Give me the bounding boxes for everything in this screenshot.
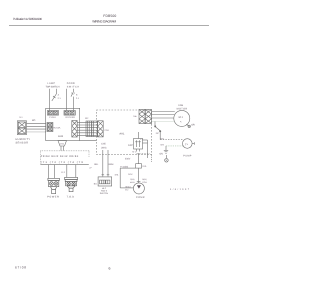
svg-text:FDB500: FDB500 — [103, 14, 116, 18]
svg-text:∿: ∿ — [180, 120, 182, 123]
fan motor M-1 caption — [177, 104, 188, 110]
svg-text:230V: 230V — [125, 158, 131, 161]
svg-text:SWITCH: SWITCH — [100, 192, 109, 195]
svg-text:T.O.D: T.O.D — [67, 196, 75, 199]
switch SW1 — [49, 89, 56, 111]
switch SW2 contact labels — [76, 93, 80, 99]
svg-text:R(M): R(M) — [142, 178, 147, 181]
svg-text:52U: 52U — [128, 173, 132, 176]
svg-text:BU: BU — [94, 182, 97, 185]
svg-text:LAMP: LAMP — [47, 82, 55, 85]
power cord plug — [48, 178, 60, 193]
svg-text:CAP: CAP — [128, 144, 133, 147]
compressor internal mark — [137, 185, 141, 188]
fan motor M-1 — [174, 110, 190, 126]
svg-text:67/08: 67/08 — [15, 265, 26, 269]
svg-text:WIRING DIAGRAM: WIRING DIAGRAM — [92, 20, 116, 24]
fan motor connector CN4 — [139, 110, 152, 124]
wire strip to TOD — [67, 165, 76, 178]
svg-text:CN1: CN1 — [105, 129, 110, 132]
svg-text:AH2: AH2 — [58, 135, 64, 138]
svg-text:Publication No. 5995310936: Publication No. 5995310936 — [13, 17, 42, 21]
wire CN5 to fan switch — [102, 150, 110, 176]
connector ACC6A — [47, 122, 53, 131]
svg-text:COM: COM — [142, 181, 147, 184]
ground GN — [164, 146, 168, 153]
svg-text:HE(C): HE(C) — [125, 185, 131, 188]
wire sensor to control box — [27, 124, 47, 132]
humidity sensor caption — [16, 138, 31, 145]
svg-text:OVL: OVL — [142, 165, 147, 168]
switch SW2 — [67, 89, 75, 111]
svg-text:MOTOR: MOTOR — [177, 107, 188, 110]
fan motor ground terminal GR — [186, 124, 190, 128]
svg-text:CN5: CN5 — [101, 143, 106, 146]
svg-text:ACC6A: ACC6A — [53, 127, 61, 130]
wire capacitor right branch — [143, 140, 152, 162]
pump terminal tick — [192, 142, 194, 144]
svg-text:(WH): (WH) — [101, 147, 107, 150]
svg-text:SENSOR: SENSOR — [16, 142, 29, 145]
svg-text:COMP.: COMP. — [136, 196, 146, 199]
svg-text:FAN-3: FAN-3 — [101, 190, 108, 193]
control box AH2 — [46, 108, 80, 140]
wire DP to pump dashed — [160, 139, 183, 141]
connector CN1 receptacle — [98, 121, 104, 137]
label HE B-2 — [125, 185, 131, 191]
switch SW1 label LAMP TOP SWITCH — [46, 82, 60, 88]
connector CN5 label — [101, 143, 107, 150]
svg-text:TOP SWITCH: TOP SWITCH — [46, 85, 60, 88]
de-icer switch DP — [155, 122, 161, 140]
svg-text:S(M): S(M) — [130, 178, 134, 181]
svg-text:ROCKER: ROCKER — [66, 116, 76, 119]
fan motor internal label — [179, 116, 184, 123]
wire connector to fan motor — [152, 112, 175, 122]
terminal strip T1-T9 dotted border — [41, 151, 90, 165]
wire AH1 bottom dashed stub — [137, 153, 151, 155]
ribbon connector left half — [72, 121, 77, 138]
ground terminal circle — [165, 155, 169, 162]
switch SW2 label DOOR SWITCH — [67, 82, 80, 88]
switch SW1 contact labels — [58, 93, 62, 99]
wire compressor run loop — [120, 168, 135, 188]
fan speed switch caption — [100, 187, 109, 195]
svg-text:PUMP: PUMP — [183, 155, 191, 158]
ribbon connector right half — [86, 121, 97, 137]
svg-text:MAIN: MAIN — [130, 181, 135, 184]
svg-text:4/6/1997: 4/6/1997 — [170, 188, 190, 191]
wire capacitor to overload — [137, 149, 140, 164]
wire AH1 to capacitor — [137, 132, 139, 139]
power board AH1 dashed outline — [97, 110, 152, 154]
svg-text:PUSH: PUSH — [49, 116, 56, 119]
wire overload to compressor — [137, 168, 141, 183]
wire strip to power cord — [48, 165, 54, 179]
svg-text:PR/BK BK/R BK/W OR/BK: PR/BK BK/R BK/W OR/BK — [41, 155, 79, 158]
wire green dotted to pump — [166, 145, 183, 147]
terminal strip bottom edge — [41, 164, 89, 166]
compressor COMP — [133, 183, 144, 194]
svg-text:DOOR: DOOR — [67, 82, 75, 85]
header rule — [9, 24, 209, 26]
svg-text:6: 6 — [109, 267, 111, 271]
ribbon cable wires — [77, 122, 97, 135]
connector CN3 trapezoid under AH2 — [58, 141, 67, 146]
svg-text:M-1: M-1 — [179, 116, 184, 119]
wire bottom link control box — [80, 140, 97, 142]
svg-text:(T1 (T2 (T3 (T4 (T9: (T1 (T2 (T3 (T4 (T9 — [41, 161, 84, 164]
fan speed switch — [98, 177, 112, 186]
pump motor — [183, 139, 193, 149]
connector plug P1 (push switch) — [47, 111, 58, 116]
svg-text:POWER: POWER — [47, 195, 59, 198]
svg-text:(∿: (∿ — [185, 143, 188, 146]
overload OVL — [136, 164, 142, 168]
svg-text:HUMIDITY: HUMIDITY — [16, 138, 31, 141]
svg-text:GR: GR — [191, 124, 195, 127]
svg-text:GN: GN — [159, 152, 163, 155]
svg-text:BBM: BBM — [109, 163, 114, 166]
capacitor CAP — [134, 139, 143, 150]
TOD component — [65, 177, 78, 191]
svg-text:AH1: AH1 — [119, 133, 125, 136]
svg-text:SWITCH: SWITCH — [67, 85, 80, 88]
humidity sensor S-1 — [17, 121, 26, 135]
connector plug P2 (rocker switch) — [64, 111, 75, 116]
wire CN2 to terminal strip — [61, 146, 63, 151]
svg-text:DP: DP — [156, 132, 160, 135]
